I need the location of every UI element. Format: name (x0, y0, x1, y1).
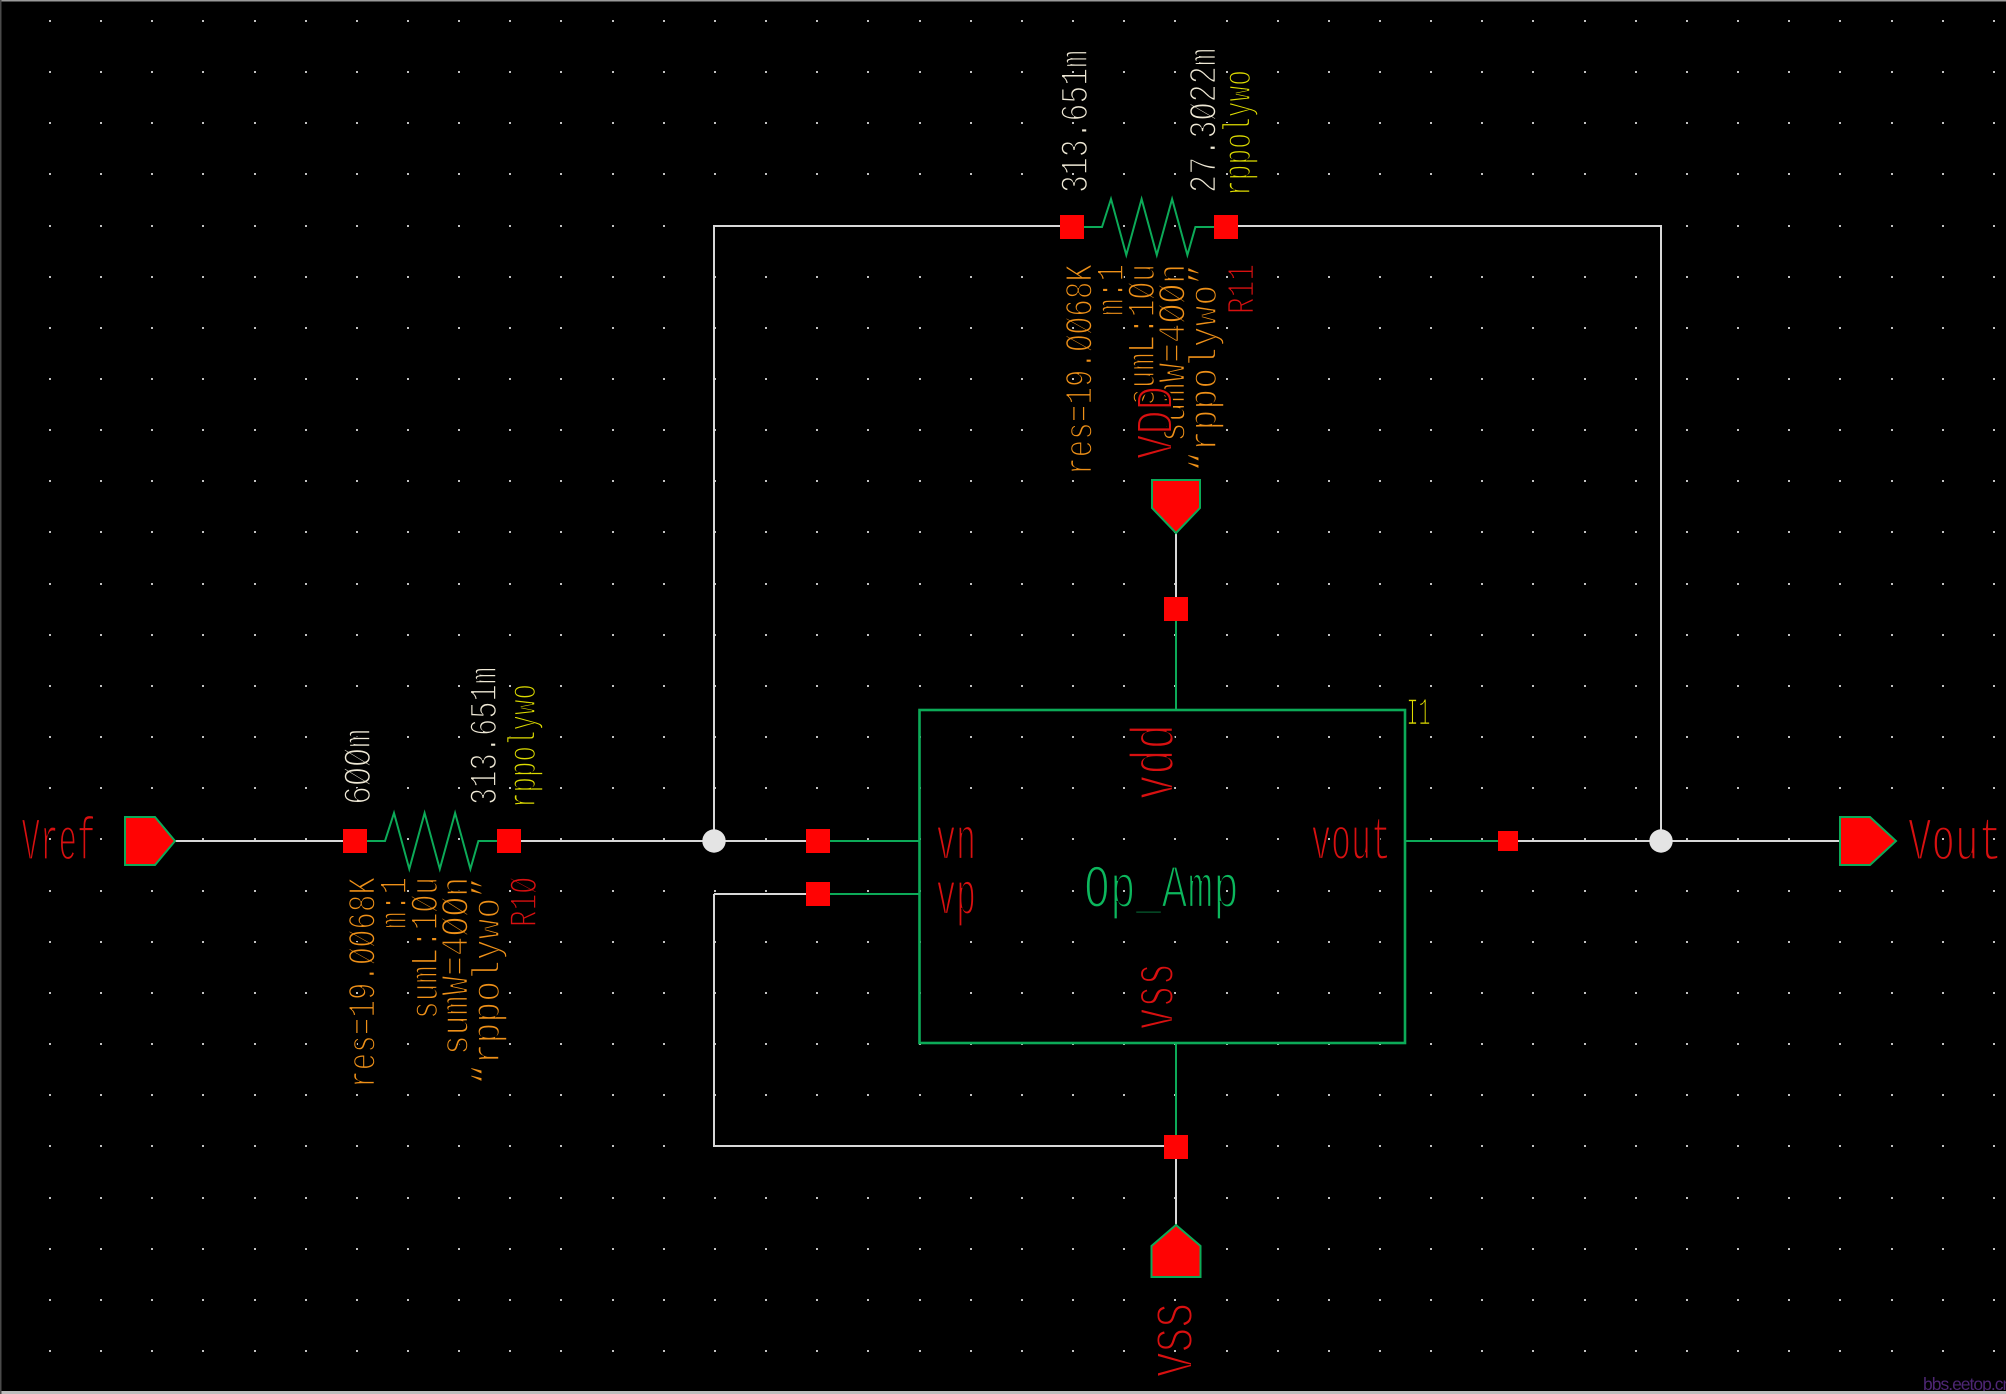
pin square vout (1498, 831, 1518, 851)
R10 param res=19.0068K (342, 877, 387, 1088)
pin square R11 right (1214, 215, 1238, 239)
R11 param sumL:10u (1121, 264, 1166, 406)
wire Vref to R10 (175, 840, 345, 842)
R10 param quoted rppolywo (466, 877, 511, 1085)
R11 param sumW=400n (1151, 264, 1196, 442)
pin square vdd (1164, 597, 1188, 621)
svg-text:VDD: VDD (1129, 386, 1189, 459)
pin label vout (1311, 809, 1391, 878)
pin square vn (806, 829, 830, 853)
svg-text:vout: vout (1311, 809, 1391, 878)
op-amp cell name Op_Amp (1084, 857, 1239, 926)
pin square R10 left (343, 829, 367, 853)
wire bottom to vss pin (713, 1145, 1165, 1147)
wire top to R11 (713, 225, 1062, 227)
R11 model rppolywo (1217, 70, 1262, 196)
svg-text:313.651m: 313.651m (1054, 50, 1099, 193)
window frame (0, 0, 2006, 2)
label Vref (22, 809, 96, 878)
resistor R10 body (367, 813, 498, 869)
pin label vn (936, 809, 976, 878)
pin square R11 left (1060, 215, 1084, 239)
svg-text:R1Ø: R1Ø (503, 877, 548, 927)
R11 designator (1220, 264, 1265, 314)
svg-text:Op_Amp: Op_Amp (1084, 857, 1239, 926)
R11 param quoted rppolywo (1183, 264, 1228, 472)
R11 value 313.651m (1054, 50, 1099, 193)
VSS supply symbol (1152, 1225, 1201, 1277)
op-amp vp pin stub (818, 893, 920, 895)
instance name I1 (1407, 692, 1431, 737)
wire vertical feedback left (713, 226, 715, 841)
op-amp vss pin stub (1175, 1043, 1177, 1136)
R10 value 313.651m (463, 667, 508, 805)
svg-text:vdd: vdd (1123, 724, 1192, 800)
R10 param sumL:10u (404, 877, 449, 1019)
wire vertical vp to vss route (713, 894, 715, 1147)
svg-text:R11: R11 (1220, 264, 1265, 314)
VDD supply symbol (1152, 480, 1200, 533)
wire vout to Vout pin (1508, 840, 1841, 842)
wire vss pin to VSS symbol (1175, 1158, 1177, 1225)
wire R10 to vn pin (509, 840, 807, 842)
R11 param m:1 (1090, 264, 1135, 316)
pin label vp (936, 864, 976, 933)
wire vertical feedback right (1660, 225, 1662, 841)
R10 designator (503, 877, 548, 927)
wire to vp pin (714, 893, 806, 895)
op-amp vn pin stub (818, 840, 920, 842)
svg-text:vss: vss (1123, 963, 1192, 1030)
pin label vdd (1123, 724, 1192, 800)
wire VDD symbol to vdd pin (1175, 533, 1177, 599)
svg-text:I1: I1 (1407, 692, 1431, 737)
junction node right (1649, 829, 1672, 852)
svg-text:rppolywo: rppolywo (502, 684, 547, 808)
pin square vp (806, 882, 830, 906)
junction node left (702, 829, 725, 852)
svg-text:VSS: VSS (1149, 1303, 1209, 1377)
svg-text:vp: vp (936, 864, 976, 933)
R11 value 27.3022m (1183, 48, 1228, 193)
R10 param m:1 (373, 877, 418, 929)
svg-text:rppolywo: rppolywo (1217, 70, 1262, 196)
R10 param sumW=400n (435, 877, 480, 1055)
resistor R11 body (1084, 199, 1215, 255)
svg-text:Vout: Vout (1908, 809, 2002, 878)
op-amp vout pin stub (1405, 840, 1508, 842)
R11 param res=19.0068K (1058, 264, 1103, 475)
pin label vss (1123, 963, 1192, 1030)
pin square vss (1164, 1135, 1188, 1159)
R10 value 600m (337, 729, 382, 805)
pin Vout (1840, 817, 1896, 865)
op-amp I1 Op_Amp box (920, 710, 1406, 1043)
pin square R10 right (497, 829, 521, 853)
pin Vref (125, 817, 175, 865)
svg-text:6ØØm: 6ØØm (337, 729, 382, 805)
wire R11 to right corner (1238, 225, 1661, 227)
label VDD (1129, 386, 1189, 459)
label VSS (1149, 1303, 1209, 1377)
op-amp vdd pin stub (1175, 620, 1177, 710)
svg-text:Vref: Vref (22, 809, 96, 878)
label Vout (1908, 809, 2002, 878)
R10 model rppolywo (502, 684, 547, 808)
